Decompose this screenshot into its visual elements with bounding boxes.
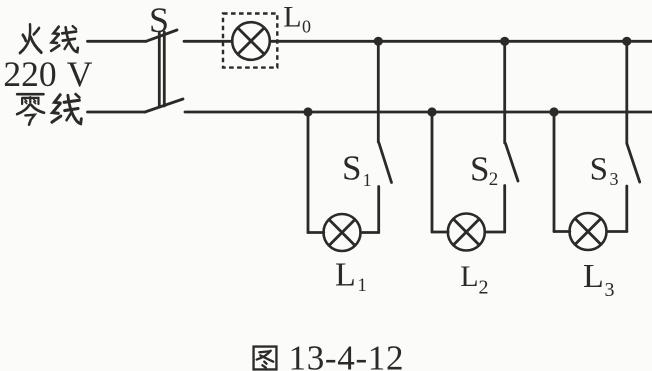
svg-text:S: S (149, 0, 169, 40)
svg-text:0: 0 (302, 17, 311, 37)
svg-text:1: 1 (363, 170, 372, 190)
svg-text:L: L (283, 1, 301, 34)
svg-text:S: S (342, 149, 361, 188)
svg-text:2: 2 (479, 277, 489, 299)
svg-text:L: L (335, 256, 356, 293)
svg-text:220: 220 (3, 54, 56, 94)
svg-text:13-4-12: 13-4-12 (289, 339, 405, 371)
svg-text:3: 3 (605, 279, 615, 301)
svg-text:L: L (460, 260, 478, 293)
svg-text:2: 2 (489, 169, 499, 190)
svg-text:L: L (583, 258, 604, 295)
svg-text:S: S (470, 149, 489, 188)
svg-text:1: 1 (358, 276, 367, 296)
svg-text:V: V (67, 54, 93, 94)
svg-text:3: 3 (610, 169, 619, 189)
svg-text:S: S (590, 151, 608, 187)
